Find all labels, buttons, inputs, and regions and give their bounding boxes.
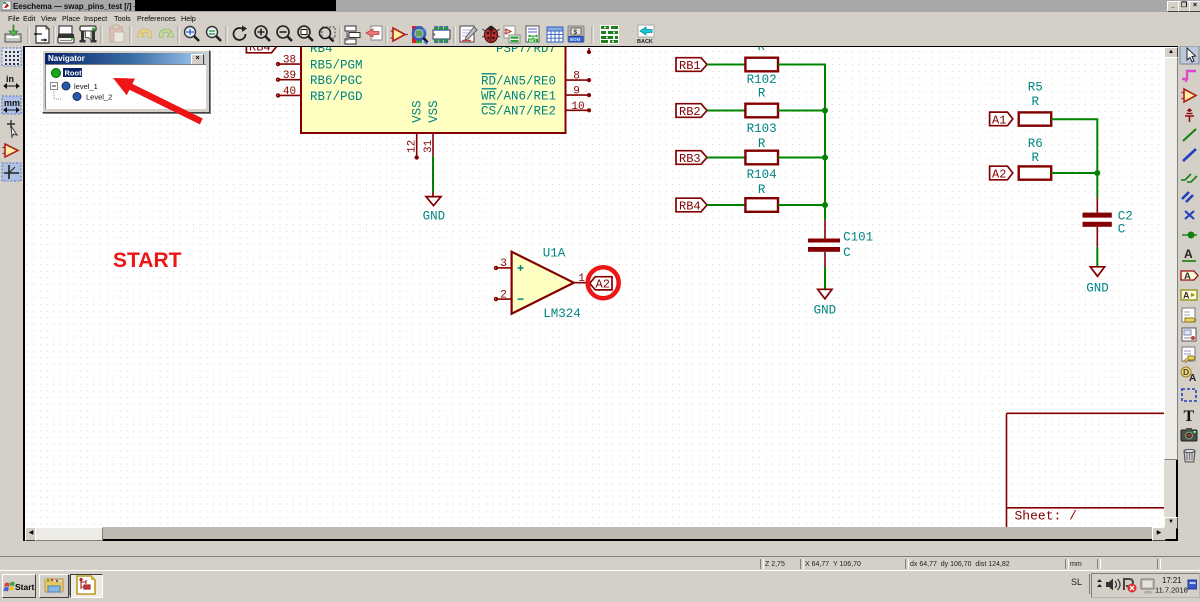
pin 40 (RB7/PGD) — [277, 94, 301, 97]
pin fragment top right of IC — [588, 48, 591, 53]
pin 8 (RD/AN5/RE0) — [566, 79, 591, 82]
cursor (pressed) — [1180, 46, 1199, 64]
place power port — [1185, 108, 1194, 122]
cursor shape — [7, 120, 17, 137]
undo (disabled) — [137, 28, 153, 38]
resistor R5 — [1019, 112, 1051, 125]
wire resistor to bus node — [778, 204, 826, 206]
junction at RB3 row — [822, 155, 828, 161]
net label — [1182, 247, 1196, 261]
resistor (bottom of column) — [745, 198, 778, 212]
zoom selection — [320, 27, 336, 42]
junction at RB4 row — [822, 202, 828, 208]
zoom in — [255, 26, 270, 41]
paste (disabled) — [110, 25, 124, 42]
op-amp U1A body — [512, 252, 574, 314]
plot — [80, 26, 97, 43]
highlight net — [1182, 71, 1196, 82]
global label — [1181, 271, 1198, 282]
op-amp plus input marking — [518, 265, 524, 271]
pin 31 (VSS) — [432, 133, 434, 157]
place text — [1184, 408, 1195, 425]
netlist — [526, 26, 539, 43]
place image — [1181, 428, 1197, 441]
global label RB4 at sheet top (clipped) — [246, 39, 277, 54]
wire RB3 to R104 — [707, 157, 745, 159]
spreadsheet — [547, 27, 563, 42]
wire R102 to bus node — [778, 64, 826, 66]
svg-text:START: START — [113, 249, 182, 272]
wire RB1 to R102 — [707, 64, 745, 66]
find — [185, 27, 200, 42]
edit symbol (pencil) — [460, 26, 477, 42]
print — [58, 26, 74, 43]
resistor R6 — [1019, 166, 1051, 179]
wire R103 to bus node — [778, 110, 826, 112]
junction — [1182, 232, 1197, 239]
resistor R102 — [745, 58, 778, 72]
hierarchy navigator — [345, 26, 360, 44]
back — [637, 25, 654, 45]
wire C101 to GND — [824, 267, 826, 289]
leave sheet — [366, 26, 382, 40]
no connect flag — [1185, 211, 1194, 219]
page setup — [34, 26, 49, 43]
zoom fit — [298, 26, 313, 41]
IC U? PIC microcontroller body — [301, 35, 566, 133]
global label A2 at op-amp output (points left) — [590, 277, 612, 292]
BOM — [568, 26, 584, 42]
pin 1 (output) — [574, 282, 590, 284]
hierarchical label — [1181, 290, 1197, 301]
global label A1 — [990, 112, 1013, 127]
sheet title block frame — [1007, 413, 1165, 527]
pin 39 (RB6/PGC) — [277, 78, 301, 81]
wire R6 to node — [1051, 172, 1098, 174]
pin 10 (CS/AN7/RE2) — [566, 109, 591, 112]
place sheet — [1182, 328, 1196, 341]
global label RB2 — [676, 104, 707, 119]
vertical wire joining resistor column — [824, 65, 826, 220]
junction at A2 row — [1094, 170, 1100, 176]
ground symbol under IC — [426, 193, 441, 206]
bus to bus entry — [1182, 192, 1193, 202]
find/replace — [207, 27, 222, 42]
units mm (pressed) — [2, 96, 21, 114]
delete tool (trash) — [1184, 449, 1195, 462]
ground symbol under C2 — [1090, 267, 1104, 277]
sheet pin — [1182, 347, 1196, 363]
zoom out — [277, 26, 292, 41]
text orientation DA — [1181, 367, 1196, 384]
pin 12 (VSS) — [415, 133, 418, 159]
pin 2 (inverting input) — [495, 298, 512, 301]
resistor R103 — [745, 104, 778, 118]
wire pin31 to GND — [432, 157, 434, 193]
annotation circle around A2 — [588, 267, 619, 298]
global label RB3 — [676, 151, 707, 166]
redo (disabled) — [158, 28, 174, 38]
ladybug — [482, 26, 499, 43]
wire C2 to GND — [1096, 247, 1098, 267]
global label RB4 — [676, 198, 707, 213]
import sheet pin — [1182, 308, 1196, 322]
place symbol — [1182, 89, 1197, 102]
ground symbol under C101 — [818, 289, 832, 299]
capacitor C101 — [808, 219, 840, 267]
global label RB1 — [676, 58, 707, 73]
global label A2 — [990, 166, 1013, 181]
wire R5 to node — [1051, 118, 1098, 120]
annotation arrow pointing at navigator — [113, 78, 135, 95]
cvpcb — [504, 26, 520, 43]
place wire — [1183, 129, 1196, 141]
place bus — [1183, 149, 1196, 161]
vertical wire R5/R6 column — [1096, 119, 1098, 197]
refresh — [234, 26, 248, 40]
resistor R104 — [745, 151, 778, 165]
capacitor C2 — [1083, 198, 1112, 247]
pin 38 (RB5/PGM) — [277, 63, 301, 66]
ERC — [412, 26, 428, 44]
grid toggle (pressed) — [2, 48, 21, 66]
save — [5, 25, 21, 42]
wire R104 to bus node — [778, 157, 826, 159]
junction at RB2 row — [822, 108, 828, 114]
op-amp minus input marking — [518, 298, 524, 300]
hv orientation (pressed) — [2, 163, 21, 181]
pin 3 (non-inverting input) — [495, 267, 512, 270]
hidden pins (opamp) — [3, 144, 19, 157]
pcbnew — [600, 25, 619, 44]
place graphic rectangle — [1182, 389, 1196, 401]
pin 9 (WR/AN6/RE1) — [566, 94, 591, 97]
wire to bus entry — [1181, 174, 1197, 182]
wire RB2 to R103 — [707, 110, 745, 112]
annotate (opamp) — [391, 28, 409, 41]
units inches — [4, 74, 19, 88]
footprint chip — [433, 27, 450, 43]
wire RB4 to R? — [707, 204, 745, 206]
